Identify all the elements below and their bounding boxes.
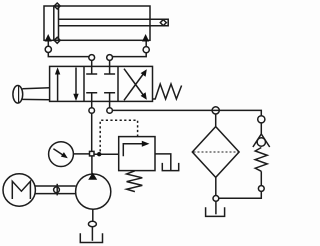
tank symbol (reservoir under pump) xyxy=(80,233,102,242)
junction dot node xyxy=(97,152,101,156)
wire check valve to filter outlet junction xyxy=(219,191,261,198)
filter bottom stub xyxy=(215,177,217,195)
directional valve 4/3 body U1 xyxy=(50,66,153,101)
drive shaft xyxy=(35,186,76,194)
pump outlet arrow xyxy=(88,173,97,180)
cylinder left port connector circle xyxy=(45,46,51,52)
cylinder right port connector circle xyxy=(143,47,149,53)
valve left cell up arrow xyxy=(55,67,60,101)
relief valve spring xyxy=(127,171,143,192)
wire junction to pump xyxy=(91,156,93,174)
electric motor M1 xyxy=(3,174,35,206)
check valve ball xyxy=(257,138,265,146)
tank symbol (main return) xyxy=(206,207,225,216)
valve bottom port T circle xyxy=(89,108,95,114)
wire check valve to bottom circle xyxy=(260,171,262,185)
check valve spring xyxy=(255,148,267,172)
tank symbol (relief valve drain) xyxy=(162,163,178,171)
valve manual lever handle xyxy=(13,86,50,104)
wire pump riser (valve T port down to junction) xyxy=(91,113,93,151)
flow arrow into cylinder right port xyxy=(142,34,149,42)
valve port A circle xyxy=(89,55,95,61)
cylinder body xyxy=(44,6,150,40)
filter F1 diamond xyxy=(192,127,239,178)
relief valve body V2 xyxy=(119,137,155,171)
wire relief valve outlet to tank xyxy=(155,154,171,170)
stub port B to valve body xyxy=(109,60,111,66)
wire left port to valve port A xyxy=(48,53,89,57)
filter stub from junction xyxy=(215,114,217,127)
stub valve body to bottom port T xyxy=(91,101,93,107)
valve center cell blocked port bottom-left T xyxy=(86,93,97,102)
stub port A to valve body xyxy=(91,60,93,66)
wire strainer to tank xyxy=(91,227,93,241)
wire cylinder right port down xyxy=(145,42,147,47)
valve center cell blocked port top-right T xyxy=(104,66,115,74)
rod end diamond marker xyxy=(160,20,166,26)
wire right port to valve port B xyxy=(113,53,147,57)
wire gauge to junction xyxy=(73,153,89,155)
valve return spring xyxy=(153,84,182,99)
wire pump suction down xyxy=(92,209,94,221)
shaft coupling circle xyxy=(54,184,60,196)
cylinder rod xyxy=(59,19,169,26)
wire filter junction to tank xyxy=(215,201,217,214)
pressure gauge G1 xyxy=(49,142,74,167)
wire pressure line P to filter and check valve xyxy=(112,110,261,115)
valve right cell crossed arrow to top xyxy=(124,69,147,100)
relief valve internal arrow xyxy=(123,141,149,156)
junction square fitting xyxy=(90,151,95,156)
check valve top circle xyxy=(258,116,265,123)
filter top junction circle xyxy=(212,107,219,114)
valve port B circle xyxy=(107,55,113,61)
suction strainer ellipse xyxy=(88,221,96,226)
valve left cell down arrow xyxy=(73,68,78,102)
check valve seat and stem xyxy=(253,123,270,147)
valve center cell blocked port bottom-right T xyxy=(104,93,115,102)
hydraulic pump P1 xyxy=(76,174,111,209)
valve right cell crossed arrow to bottom xyxy=(124,69,147,100)
cylinder piston xyxy=(54,6,59,40)
wire cylinder left port down xyxy=(47,42,49,47)
filter bottom junction circle xyxy=(213,196,219,202)
filter element dashed line xyxy=(194,151,239,153)
wire junction to relief valve inlet xyxy=(94,153,119,155)
pilot line dashed xyxy=(100,120,137,151)
cylinder top diamond marker xyxy=(54,3,60,9)
flow arrow into cylinder left port xyxy=(45,34,52,42)
check valve bottom circle xyxy=(258,186,264,192)
stub valve body to bottom port P xyxy=(109,101,111,107)
valve bottom port P circle xyxy=(107,108,113,114)
cylinder bottom diamond marker xyxy=(54,37,60,43)
valve center cell blocked port top-left T xyxy=(86,66,97,74)
